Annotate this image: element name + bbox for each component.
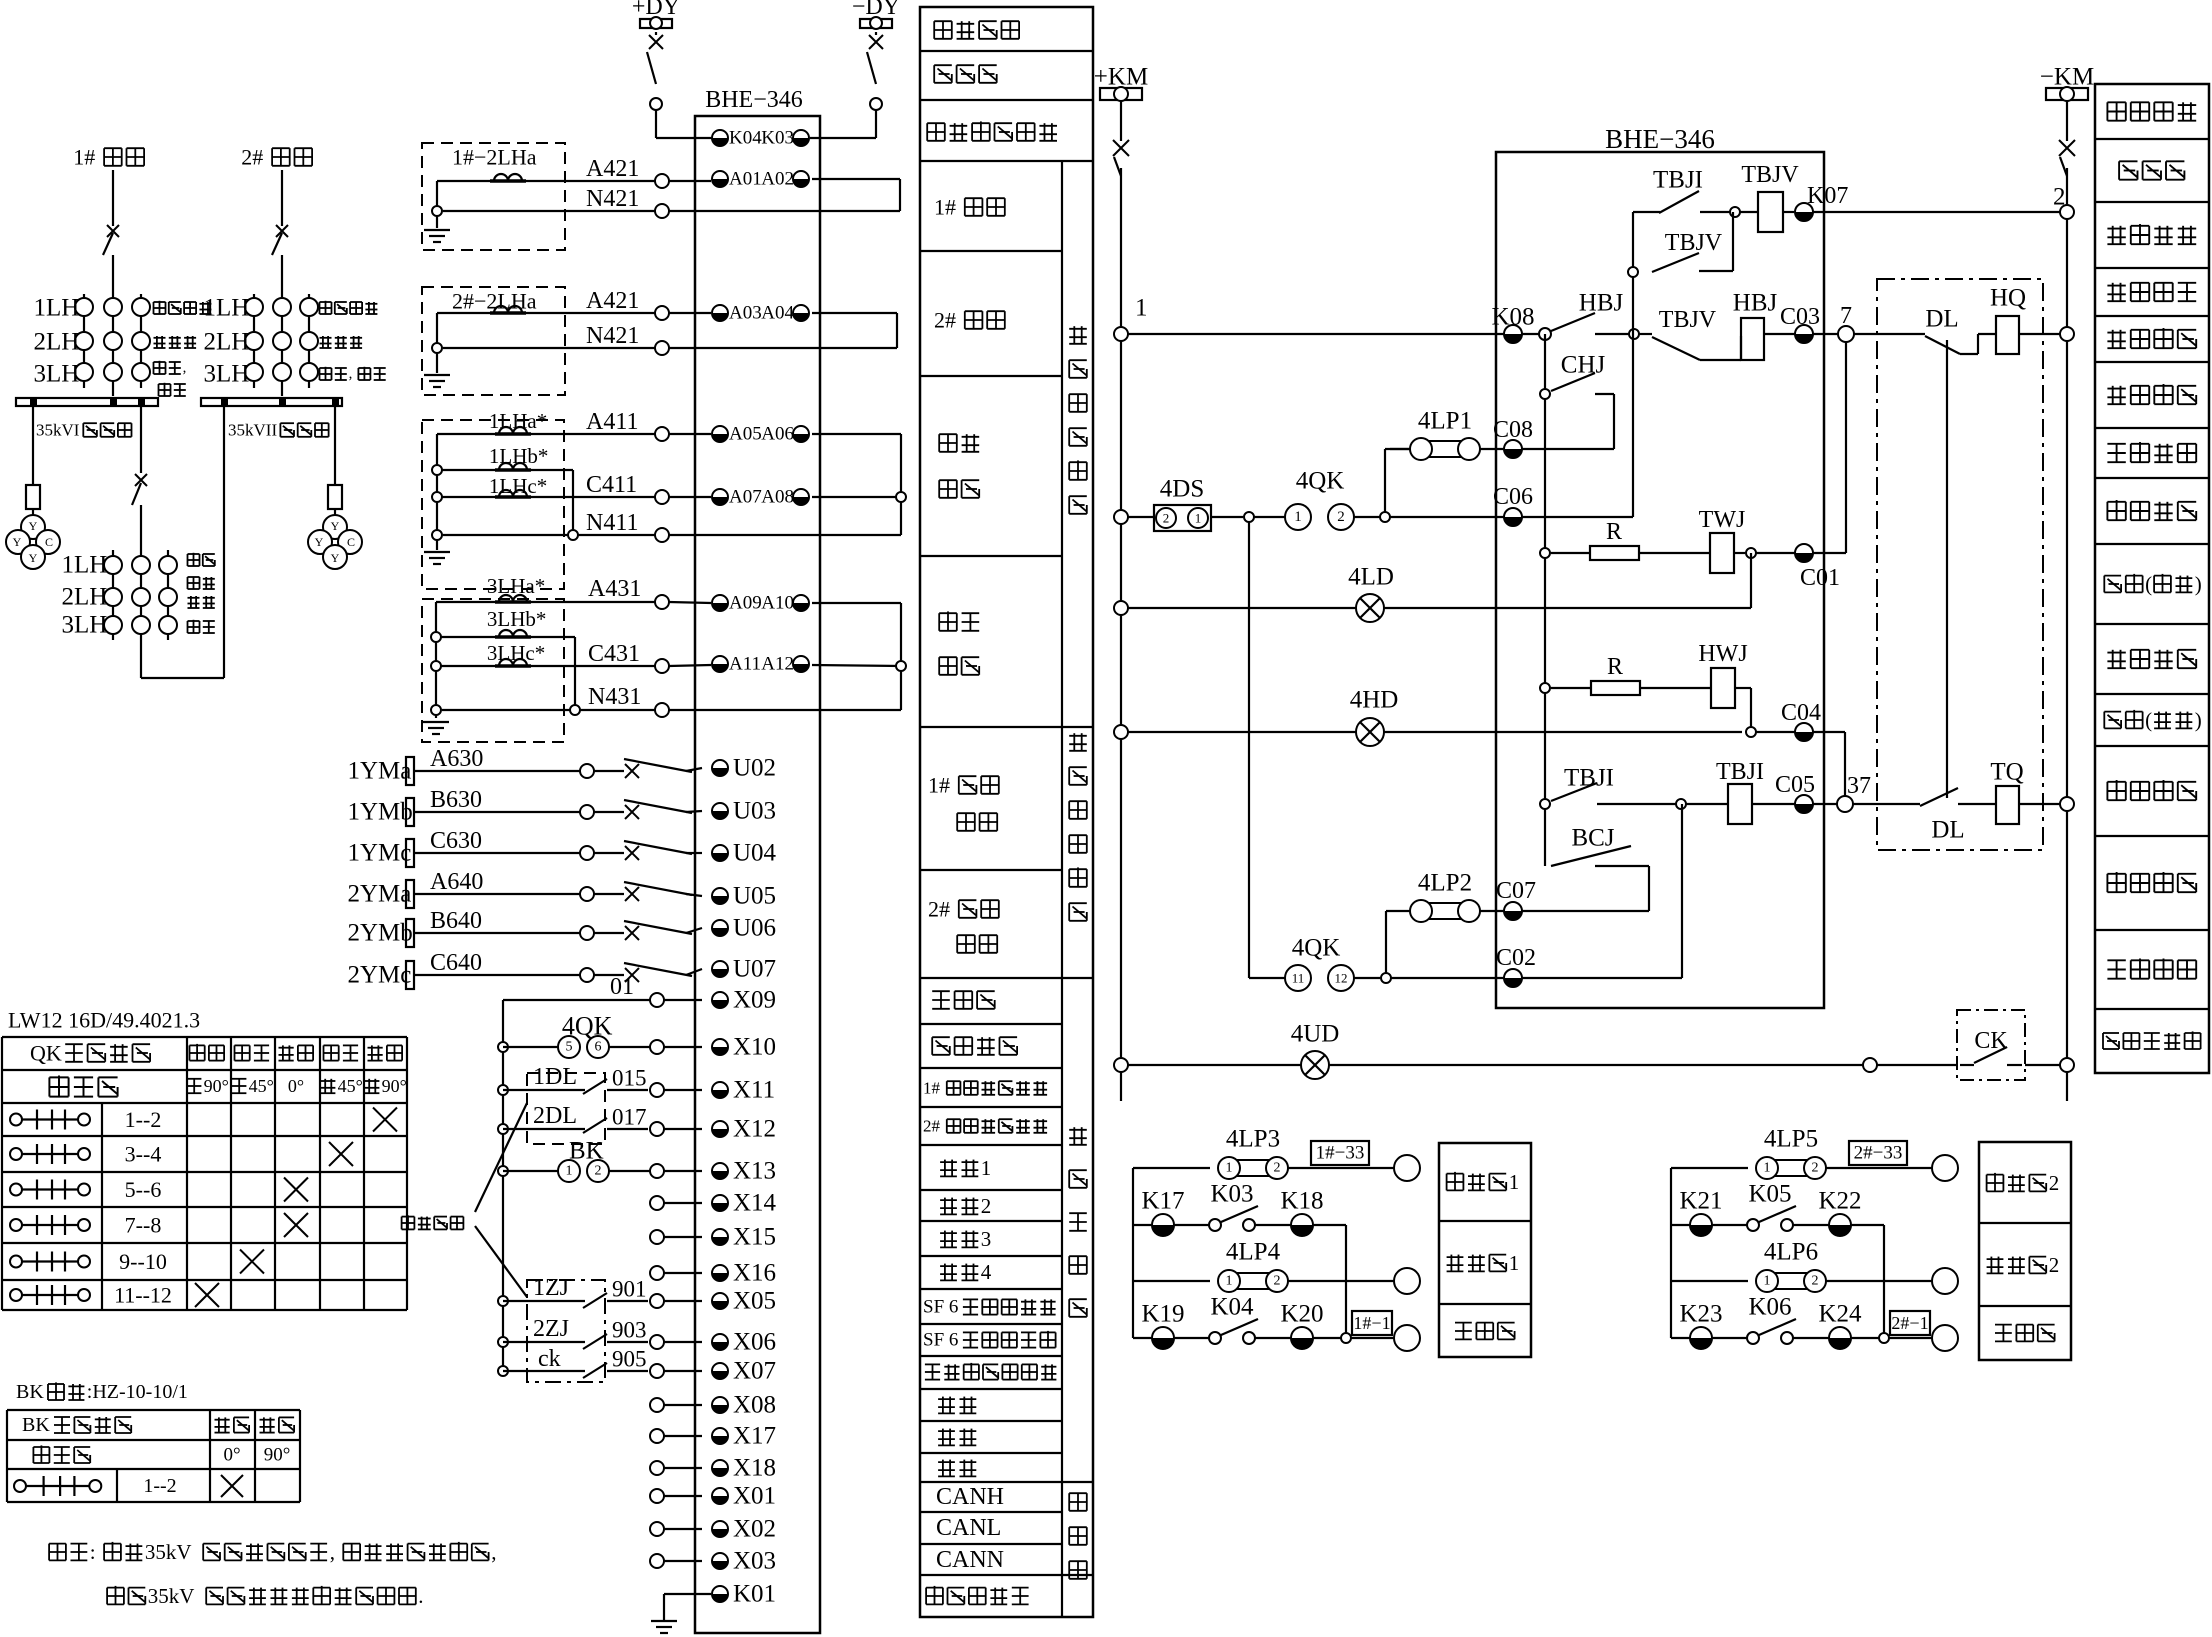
svg-text:C640: C640 [430, 950, 482, 976]
svg-text:U07: U07 [733, 956, 776, 983]
svg-text:90°: 90° [204, 1076, 229, 1096]
svg-text:2: 2 [1274, 1161, 1281, 1176]
svg-text:B640: B640 [430, 908, 482, 934]
svg-text:K03: K03 [761, 128, 794, 149]
svg-text:N421: N421 [586, 186, 639, 212]
svg-text:TBJV: TBJV [1659, 307, 1717, 333]
svg-text:BHE−346: BHE−346 [1605, 124, 1715, 154]
svg-text:,: , [183, 360, 187, 376]
svg-text:A09: A09 [729, 593, 762, 614]
svg-text:35kVI: 35kVI [36, 421, 80, 440]
svg-text:R: R [1607, 654, 1623, 680]
svg-text:,: , [330, 1540, 335, 1564]
svg-text:1LHb*: 1LHb* [489, 444, 549, 468]
svg-text::HZ-10-10/1: :HZ-10-10/1 [87, 1381, 188, 1403]
svg-text:1--2: 1--2 [143, 1475, 176, 1497]
svg-text:QK: QK [30, 1041, 62, 1066]
svg-text:): ) [2195, 572, 2202, 596]
svg-text:4DS: 4DS [1160, 476, 1204, 503]
svg-text:C630: C630 [430, 828, 482, 854]
svg-text:X11: X11 [733, 1077, 775, 1104]
svg-text:,: , [491, 1540, 496, 1564]
svg-text:X14: X14 [733, 1190, 777, 1217]
svg-text:LW12 16D/49.4021.3: LW12 16D/49.4021.3 [8, 1008, 200, 1033]
svg-text:1#−33: 1#−33 [1316, 1143, 1365, 1164]
svg-text:X12: X12 [733, 1116, 776, 1143]
svg-text:1#: 1# [934, 195, 956, 220]
svg-text:1: 1 [1226, 1161, 1233, 1176]
svg-text:Y: Y [331, 551, 340, 565]
svg-text:1LHa*: 1LHa* [489, 409, 547, 433]
svg-text:X01: X01 [733, 1483, 776, 1510]
svg-text:2: 2 [1812, 1274, 1819, 1289]
svg-text:2YMb: 2YMb [348, 920, 413, 947]
svg-text:K17: K17 [1141, 1188, 1184, 1215]
svg-text:3LHa*: 3LHa* [487, 574, 545, 598]
svg-text:,: , [349, 366, 353, 382]
svg-text:35kVII: 35kVII [228, 421, 277, 440]
svg-text:X02: X02 [733, 1516, 776, 1543]
svg-text:C02: C02 [1496, 945, 1536, 971]
svg-text:Y: Y [29, 551, 38, 565]
svg-text:35kV: 35kV [148, 1584, 195, 1608]
svg-text:5--6: 5--6 [125, 1177, 162, 1202]
svg-text:1YMa: 1YMa [348, 758, 412, 785]
svg-text:A11: A11 [729, 654, 761, 675]
svg-text:1: 1 [1764, 1161, 1771, 1176]
svg-text:C08: C08 [1493, 417, 1533, 443]
svg-text:K05: K05 [1748, 1181, 1791, 1208]
svg-text:017: 017 [612, 1105, 647, 1130]
svg-text:2: 2 [1274, 1274, 1281, 1289]
svg-text:2: 2 [1163, 511, 1170, 526]
svg-text:1DL: 1DL [533, 1064, 577, 1090]
svg-text:2: 2 [2049, 1171, 2060, 1195]
svg-text:DL: DL [1925, 306, 1958, 333]
svg-text:1LH: 1LH [34, 295, 80, 322]
svg-text:0°: 0° [288, 1076, 304, 1096]
svg-text:4UD: 4UD [1291, 1021, 1340, 1048]
svg-text:A08: A08 [761, 487, 794, 508]
svg-text:A431: A431 [588, 576, 641, 602]
svg-text::: : [90, 1540, 96, 1564]
svg-text:N421: N421 [586, 323, 639, 349]
svg-text:K20: K20 [1280, 1301, 1323, 1328]
svg-text:1: 1 [981, 1156, 992, 1180]
svg-text:K19: K19 [1141, 1301, 1184, 1328]
svg-text:4LP5: 4LP5 [1764, 1126, 1818, 1153]
svg-text:1LHc*: 1LHc* [489, 474, 547, 498]
svg-text:TBJI: TBJI [1564, 765, 1614, 792]
svg-text:903: 903 [612, 1318, 647, 1343]
svg-text:HBJ: HBJ [1733, 290, 1778, 317]
svg-text:(: ( [2145, 572, 2152, 596]
svg-text:1YMb: 1YMb [348, 799, 413, 826]
svg-text:6: 6 [595, 1040, 602, 1055]
svg-text:N431: N431 [588, 684, 641, 710]
svg-text:2#−1: 2#−1 [1891, 1313, 1928, 1333]
svg-text:BK: BK [569, 1138, 604, 1165]
svg-text:2: 2 [981, 1194, 992, 1218]
svg-text:4LP1: 4LP1 [1418, 408, 1472, 435]
svg-text:K24: K24 [1818, 1301, 1862, 1328]
svg-text:HWJ: HWJ [1698, 641, 1747, 667]
svg-text:BCJ: BCJ [1571, 825, 1614, 852]
svg-text:A03: A03 [729, 303, 762, 324]
svg-text:1YMc: 1YMc [348, 840, 412, 867]
svg-text:R: R [1606, 519, 1622, 545]
svg-text:1: 1 [1226, 1274, 1233, 1289]
svg-text:C01: C01 [1800, 565, 1840, 591]
svg-text:4QK: 4QK [562, 1012, 613, 1041]
svg-text:A421: A421 [586, 156, 639, 182]
svg-text:Y: Y [331, 519, 340, 533]
svg-text:2: 2 [2049, 1253, 2060, 1277]
svg-text:0°: 0° [223, 1445, 240, 1466]
svg-text:2#−33: 2#−33 [1854, 1143, 1903, 1164]
svg-text:Y: Y [13, 535, 22, 549]
svg-text:K22: K22 [1818, 1188, 1861, 1215]
svg-text:11: 11 [1292, 971, 1305, 986]
svg-text:7: 7 [1840, 303, 1852, 329]
svg-text:SF 6: SF 6 [923, 1330, 958, 1351]
svg-text:2YMc: 2YMc [348, 962, 412, 989]
svg-text:1: 1 [1135, 295, 1148, 322]
svg-text:4LP3: 4LP3 [1226, 1126, 1280, 1153]
svg-text:CK: CK [1974, 1028, 2008, 1054]
svg-text:.: . [418, 1584, 423, 1608]
svg-text:C07: C07 [1496, 878, 1536, 904]
svg-text:1ZJ: 1ZJ [533, 1275, 569, 1301]
svg-text:HQ: HQ [1990, 285, 2026, 312]
svg-text:C04: C04 [1781, 700, 1821, 726]
svg-text:3LH: 3LH [62, 612, 108, 639]
svg-text:2#: 2# [928, 897, 950, 922]
svg-text:X08: X08 [733, 1392, 776, 1419]
svg-text:2YMa: 2YMa [348, 881, 412, 908]
svg-text:TBJV: TBJV [1665, 230, 1723, 256]
svg-text:K08: K08 [1491, 304, 1534, 331]
svg-text:TBJI: TBJI [1653, 167, 1703, 194]
svg-text:B630: B630 [430, 787, 482, 813]
svg-text:1#: 1# [928, 773, 950, 798]
svg-text:1#: 1# [73, 145, 95, 170]
svg-text:ck: ck [538, 1346, 561, 1372]
svg-text:X17: X17 [733, 1423, 776, 1450]
svg-text:5: 5 [566, 1040, 573, 1055]
svg-text:U04: U04 [733, 840, 777, 867]
svg-text:901: 901 [612, 1277, 647, 1302]
svg-text:90°: 90° [382, 1076, 407, 1096]
svg-text:K04: K04 [1210, 1294, 1254, 1321]
svg-text:A421: A421 [586, 288, 639, 314]
svg-text:K21: K21 [1679, 1188, 1722, 1215]
svg-text:01: 01 [610, 974, 634, 1000]
svg-text:45°: 45° [338, 1076, 363, 1096]
svg-text:BK: BK [16, 1381, 44, 1403]
svg-text:C: C [347, 535, 355, 549]
svg-text:CANL: CANL [936, 1515, 1001, 1541]
svg-text:X05: X05 [733, 1288, 776, 1315]
svg-text:Y: Y [29, 519, 38, 533]
svg-text:4: 4 [981, 1260, 992, 1284]
svg-text:1#−1: 1#−1 [1353, 1313, 1390, 1333]
svg-text:1#−2LHa: 1#−2LHa [452, 145, 537, 170]
svg-text:015: 015 [612, 1066, 647, 1091]
svg-text:K01: K01 [733, 1581, 776, 1608]
svg-text:4LP2: 4LP2 [1418, 870, 1472, 897]
svg-text:X07: X07 [733, 1358, 776, 1385]
svg-text:A411: A411 [586, 409, 638, 435]
svg-text:1: 1 [1195, 511, 1202, 526]
svg-text:A07: A07 [729, 487, 762, 508]
svg-text:2DL: 2DL [533, 1103, 577, 1129]
svg-text:TQ: TQ [1990, 759, 2023, 786]
svg-text:X18: X18 [733, 1455, 776, 1482]
svg-text:1#: 1# [923, 1079, 941, 1098]
svg-text:TBJI: TBJI [1716, 759, 1764, 785]
svg-text:X09: X09 [733, 987, 776, 1014]
svg-text:1LH: 1LH [62, 552, 108, 579]
svg-text:A640: A640 [430, 869, 483, 895]
svg-text:A04: A04 [761, 303, 794, 324]
svg-text:9--10: 9--10 [119, 1249, 167, 1274]
svg-text:TBJV: TBJV [1741, 162, 1799, 188]
svg-text:2: 2 [595, 1164, 602, 1179]
svg-text:K03: K03 [1210, 1181, 1253, 1208]
svg-text:X03: X03 [733, 1548, 776, 1575]
svg-text:45°: 45° [249, 1076, 274, 1096]
svg-text:2LH: 2LH [204, 329, 250, 356]
svg-text:N411: N411 [586, 510, 638, 536]
svg-text:A06: A06 [761, 424, 794, 445]
svg-text:BHE−346: BHE−346 [705, 87, 803, 113]
svg-text:X15: X15 [733, 1224, 776, 1251]
svg-text:2: 2 [1812, 1161, 1819, 1176]
svg-text:K06: K06 [1748, 1294, 1791, 1321]
svg-text:7--8: 7--8 [125, 1213, 162, 1238]
svg-text:4LP6: 4LP6 [1764, 1239, 1818, 1266]
svg-text:2#: 2# [934, 308, 956, 333]
svg-text:BK: BK [22, 1414, 50, 1436]
svg-text:U02: U02 [733, 755, 776, 782]
svg-text:X06: X06 [733, 1329, 776, 1356]
svg-text:37: 37 [1847, 773, 1871, 799]
svg-text:2#: 2# [923, 1117, 941, 1136]
svg-text:2LH: 2LH [34, 329, 80, 356]
svg-text:1: 1 [1294, 509, 1302, 525]
svg-text:U06: U06 [733, 915, 776, 942]
svg-text:1: 1 [566, 1164, 573, 1179]
svg-text:(: ( [2145, 708, 2152, 732]
svg-text:C411: C411 [586, 472, 637, 498]
svg-text:4LD: 4LD [1348, 564, 1394, 591]
svg-text:1: 1 [1764, 1274, 1771, 1289]
svg-text:4HD: 4HD [1350, 687, 1399, 714]
svg-text:DL: DL [1931, 817, 1964, 844]
svg-text:X10: X10 [733, 1034, 776, 1061]
svg-text:11--12: 11--12 [114, 1283, 172, 1308]
svg-text:35kV: 35kV [145, 1540, 192, 1564]
svg-text:2ZJ: 2ZJ [533, 1316, 569, 1342]
svg-text:3LHb*: 3LHb* [487, 607, 547, 631]
svg-text:2#: 2# [241, 145, 263, 170]
svg-text:CANH: CANH [936, 1484, 1004, 1510]
svg-text:CANN: CANN [936, 1547, 1004, 1573]
svg-text:SF 6: SF 6 [923, 1297, 958, 1318]
svg-text:3--4: 3--4 [125, 1142, 162, 1167]
svg-text:1--2: 1--2 [125, 1107, 162, 1132]
svg-text:4QK: 4QK [1296, 468, 1345, 495]
svg-text:A12: A12 [761, 654, 794, 675]
svg-text:U05: U05 [733, 883, 776, 910]
svg-text:3LH: 3LH [34, 361, 80, 388]
svg-text:90°: 90° [264, 1445, 291, 1466]
svg-text:1: 1 [1509, 1170, 1520, 1194]
svg-text:HBJ: HBJ [1579, 290, 1624, 317]
svg-text:A630: A630 [430, 746, 483, 772]
svg-text:K18: K18 [1280, 1188, 1323, 1215]
svg-text:12: 12 [1335, 971, 1348, 986]
svg-text:A05: A05 [729, 424, 762, 445]
svg-text:C: C [45, 535, 53, 549]
svg-text:905: 905 [612, 1347, 647, 1372]
svg-text:1: 1 [1509, 1251, 1520, 1275]
svg-text:X16: X16 [733, 1260, 776, 1287]
svg-text:C05: C05 [1775, 772, 1815, 798]
svg-text:3: 3 [981, 1227, 992, 1251]
svg-text:K23: K23 [1679, 1301, 1722, 1328]
svg-text:A02: A02 [761, 169, 794, 190]
svg-text:Y: Y [315, 535, 324, 549]
svg-text:4QK: 4QK [1292, 935, 1341, 962]
svg-text:K07: K07 [1807, 183, 1848, 209]
svg-text:U03: U03 [733, 798, 776, 825]
svg-text:): ) [2195, 708, 2202, 732]
svg-text:CHJ: CHJ [1561, 352, 1606, 379]
svg-text:C431: C431 [588, 641, 640, 667]
svg-text:4LP4: 4LP4 [1226, 1239, 1281, 1266]
svg-text:K04: K04 [729, 128, 762, 149]
svg-text:X13: X13 [733, 1158, 776, 1185]
svg-text:C06: C06 [1493, 484, 1533, 510]
svg-text:2LH: 2LH [62, 584, 108, 611]
svg-text:C03: C03 [1780, 304, 1820, 330]
svg-text:TWJ: TWJ [1699, 507, 1746, 533]
svg-text:2: 2 [1337, 509, 1345, 525]
svg-text:A01: A01 [729, 169, 762, 190]
svg-text:3LH: 3LH [204, 361, 250, 388]
svg-text:A10: A10 [761, 593, 794, 614]
svg-text:1LH: 1LH [204, 295, 250, 322]
